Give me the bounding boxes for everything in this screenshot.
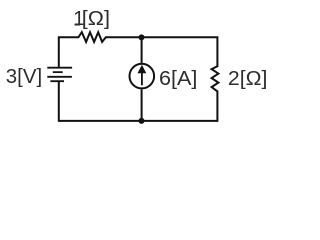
svg-text:2[Ω]: 2[Ω] — [228, 68, 268, 90]
svg-text:6[A]: 6[A] — [159, 68, 197, 90]
svg-text:[Ω]: [Ω] — [82, 8, 110, 30]
svg-text:3[V]: 3[V] — [6, 66, 42, 88]
